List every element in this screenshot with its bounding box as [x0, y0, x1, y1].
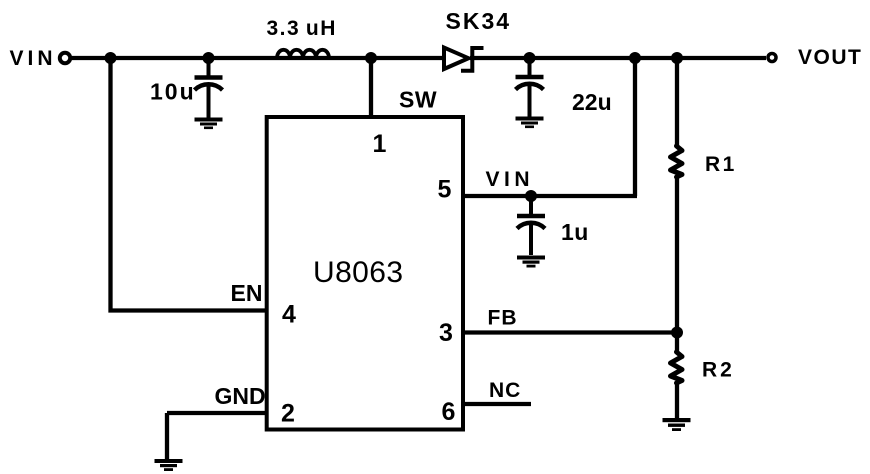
terminal VOUT open circle: [768, 54, 776, 62]
wire R2 top stem: [675, 333, 679, 354]
node dot at 10u capacitor: [203, 52, 215, 64]
resistor R1 zigzag: [671, 146, 683, 177]
wire FB pin 3 horizontal: [463, 330, 677, 334]
wire GND pin 2 horizontal: [167, 411, 267, 415]
capacitor C2 22u: [516, 58, 544, 117]
node dot at FB / R2 junction: [671, 327, 683, 339]
svg-text:10u: 10u: [150, 79, 196, 105]
IC U8063 body: [267, 117, 463, 430]
svg-text:GND: GND: [215, 383, 266, 409]
wire GND pin 2 down to ground: [165, 413, 169, 460]
wire VIN pin 5 vertical from rail: [633, 58, 637, 196]
inductor L1 3.3uH coil: [277, 50, 329, 58]
svg-text:3: 3: [439, 319, 453, 347]
svg-text:EN: EN: [231, 280, 263, 306]
svg-text:R1: R1: [705, 153, 737, 176]
node dot at VIN branch: [105, 52, 117, 64]
svg-text:VOUT: VOUT: [798, 46, 862, 69]
ground below 22u: [516, 117, 544, 129]
svg-text:5: 5: [438, 176, 452, 204]
node dot at 22u capacitor: [524, 52, 536, 64]
wire main input rail VIN to diode: [72, 56, 445, 60]
ground below GND pin 2: [155, 459, 183, 471]
node dot at VIN pin branch: [629, 52, 641, 64]
wire NC pin 6 stub: [463, 402, 531, 406]
wire R1 branch from rail: [675, 58, 679, 147]
wire VIN branch down and EN feed: [111, 58, 267, 311]
capacitor C1 10u: [195, 58, 223, 118]
wire VIN pin 5 horizontal: [463, 194, 637, 198]
wire R2 bottom stem: [675, 382, 679, 419]
svg-text:22u: 22u: [572, 89, 612, 115]
svg-text:1u: 1u: [561, 219, 589, 245]
svg-text:4: 4: [282, 301, 296, 329]
wire diode cathode to VOUT terminal: [470, 56, 766, 60]
svg-text:6: 6: [442, 398, 456, 426]
svg-text:2: 2: [281, 400, 295, 428]
node dot at R1 branch: [671, 52, 683, 64]
terminal VIN open circle: [60, 53, 70, 63]
svg-text:SW: SW: [399, 87, 437, 113]
svg-text:FB: FB: [488, 307, 518, 330]
wire SW pin 1 vertical: [369, 58, 373, 117]
svg-text:NC: NC: [489, 379, 521, 402]
capacitor C3 1u: [517, 196, 545, 255]
ground below 1u: [517, 256, 545, 268]
svg-text:R2: R2: [702, 359, 735, 382]
svg-text:1: 1: [373, 130, 387, 158]
node dot at 1u capacitor on pin 5: [525, 190, 537, 202]
node dot at SW: [365, 52, 377, 64]
diode D1 SK34 schottky: [444, 48, 484, 71]
ground below R2: [663, 418, 691, 431]
svg-text:U8063: U8063: [313, 256, 403, 289]
svg-text:VIN: VIN: [10, 47, 57, 70]
wire R1 to FB node: [675, 176, 679, 333]
ground below 10u: [195, 118, 223, 130]
svg-text:SK34: SK34: [446, 8, 512, 34]
svg-text:3.3 uH: 3.3 uH: [267, 17, 337, 40]
svg-text:VIN: VIN: [486, 168, 535, 191]
resistor R2 zigzag: [671, 352, 683, 383]
